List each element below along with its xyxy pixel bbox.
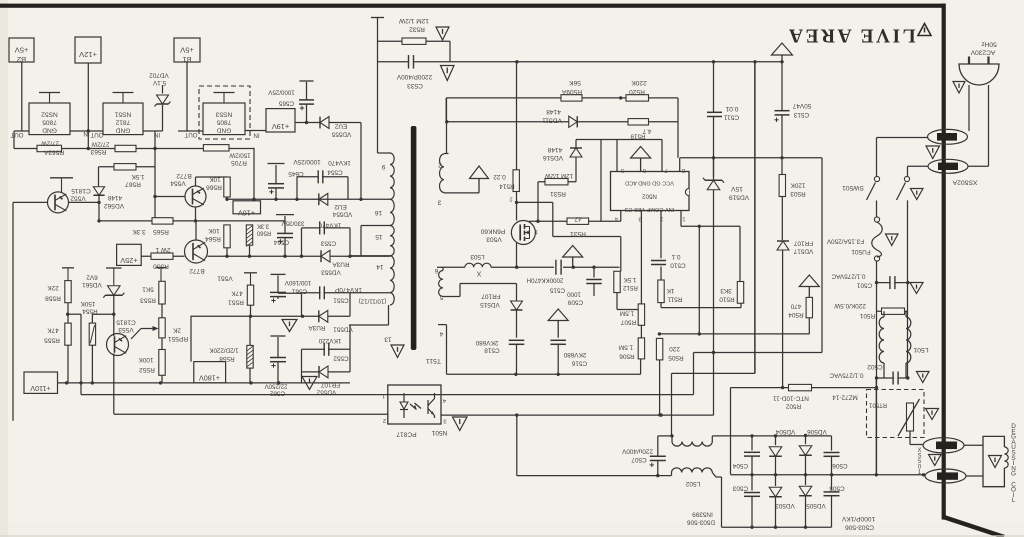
warning triangle between XS502A [926, 146, 940, 159]
svg-text:3: 3 [437, 199, 441, 206]
wire y352.5 to stair [694, 352, 823, 354]
svg-text:R519: R519 [630, 133, 645, 140]
svg-text:3K3: 3K3 [720, 287, 732, 294]
svg-text:1.5M: 1.5M [620, 310, 634, 317]
wire x730.5 AC feed [730, 388, 732, 475]
svg-text:R563A: R563A [43, 149, 64, 156]
wire V553 base arrow to RP551 [131, 329, 141, 340]
wire left leg x516.8 down [516, 415, 518, 476]
svg-text:1.5K: 1.5K [131, 173, 145, 180]
svg-text:RP551: RP551 [168, 335, 188, 342]
svg-text:L502: L502 [685, 480, 700, 487]
secondary winding left of core [390, 153, 394, 199]
resistor R531 12M 1/2W [538, 181, 576, 183]
svg-text:FR107: FR107 [481, 293, 501, 300]
resistor R531b 47 [567, 218, 589, 224]
svg-text:G: G [1011, 471, 1016, 478]
svg-text:R531: R531 [550, 190, 566, 197]
svg-text:0.1/275VAC: 0.1/275VAC [831, 273, 865, 280]
wire emitter rail y256.2 [208, 255, 391, 257]
output terminal +25V [117, 244, 142, 265]
svg-text:R514: R514 [499, 183, 515, 190]
svg-text:INV COMP VEE CS: INV COMP VEE CS [624, 206, 674, 212]
snubber loop C553/VD553 frame [301, 228, 303, 256]
svg-text:15V: 15V [731, 185, 743, 192]
svg-text:+16V: +16V [238, 209, 255, 218]
svg-text:50V47: 50V47 [792, 102, 811, 109]
svg-text:C554: C554 [327, 169, 343, 176]
svg-text:OUT: OUT [10, 131, 23, 138]
bridge mid rail y474.8 [731, 474, 924, 476]
svg-text:4148: 4148 [107, 194, 122, 201]
wire V553 collector-emitter column [113, 334, 115, 336]
diode VD517 FR107 [777, 241, 789, 250]
wire VD516 top rail y139.5 [576, 139, 662, 141]
svg-text:C565: C565 [278, 100, 294, 107]
wire base rail y220.9 [99, 220, 285, 222]
wire R514 junction to gate leg [517, 201, 553, 203]
diode VD551 RU3A [319, 310, 328, 322]
svg-text:V552: V552 [70, 195, 86, 202]
resistor R511 1K [660, 267, 662, 281]
capacitor C504 [751, 436, 753, 451]
svg-text:0.1/275VAC: 0.1/275VAC [829, 372, 863, 379]
svg-text:R564: R564 [205, 235, 221, 242]
resistor R566 10K [224, 177, 230, 197]
svg-text:R509A: R509A [561, 88, 582, 95]
svg-text:B772: B772 [189, 267, 205, 274]
svg-text:1K: 1K [666, 287, 675, 294]
svg-text:2KV680: 2KV680 [475, 339, 498, 346]
svg-text:1000/25V: 1000/25V [293, 158, 321, 165]
live-ground arrow at C513 [772, 43, 793, 55]
svg-text:V551: V551 [217, 275, 233, 282]
svg-text:NS51: NS51 [114, 111, 131, 118]
svg-text:R552: R552 [139, 366, 155, 373]
svg-text:VD519: VD519 [729, 194, 749, 201]
wire XS501-2 right to degaussing coil [966, 475, 983, 477]
resistor R552 100K [161, 338, 163, 350]
svg-text:1.5K: 1.5K [623, 276, 637, 283]
wire switch2 down / filter right column [907, 200, 909, 378]
terminal bar above NS51 [113, 92, 134, 94]
svg-text:47K: 47K [231, 290, 243, 297]
capacitor C533 2200P/400V [408, 55, 410, 69]
warning triangle near fuse [886, 234, 899, 246]
capacitor C508 series [555, 260, 557, 275]
svg-text:R565: R565 [153, 228, 169, 235]
warning triangle near C502 [917, 372, 930, 383]
wire x361 pin15-pin14 [360, 226, 362, 256]
svg-text:R554: R554 [82, 308, 98, 315]
resistor R520 220K [626, 95, 649, 101]
svg-text:14: 14 [376, 263, 384, 270]
svg-text:1KV470P: 1KV470P [335, 286, 362, 293]
winding bottom lead pin13 [388, 305, 390, 325]
diode VD553 RU3A [321, 250, 330, 262]
capacitor C518 2KV680 [509, 339, 525, 341]
svg-text:4148: 4148 [547, 146, 562, 153]
thermistor RT501 MZ72-14 dashed box [867, 390, 925, 438]
border frame bottom-right diagonal [944, 517, 1004, 537]
svg-text:V554: V554 [170, 180, 186, 187]
svg-text:C561: C561 [291, 288, 307, 295]
wire x721.5 to bottom rail [721, 477, 723, 527]
svg-text:220K: 220K [631, 79, 647, 86]
wire +180V riser [190, 316, 192, 362]
svg-text:3.3K: 3.3K [132, 228, 146, 235]
svg-text:C501: C501 [856, 282, 872, 289]
svg-text:2000KK470H: 2000KK470H [527, 277, 564, 284]
resistor R558 22K [62, 267, 74, 269]
output terminal +12V [75, 37, 101, 63]
transistor V552 C1815 [48, 192, 69, 213]
capacitor C553 1KV470 [319, 221, 321, 234]
capacitor C554 1KV470 [317, 170, 319, 183]
resistor R550 2W 1 [141, 255, 184, 257]
terminal bar above NS52 [39, 92, 60, 94]
wire pin4 leg x446.5 [446, 325, 448, 375]
wire riser x361 (pin16 to +19V) [360, 123, 362, 200]
svg-text:4: 4 [439, 330, 443, 337]
capacitor C502 0.1/275VAC [877, 377, 909, 379]
junction +12V rail [87, 147, 90, 150]
svg-text:LIVE AREA: LIVE AREA [786, 25, 915, 46]
live-ground arrow at pin3 [470, 166, 489, 179]
+19V terminal box [266, 109, 295, 132]
wire filter to bridge mid [875, 378, 877, 475]
connector XS501 contact 1 [923, 438, 964, 453]
svg-text:NS53: NS53 [215, 111, 232, 118]
warning triangle near opto [453, 417, 468, 431]
svg-text:1/2D/220K: 1/2D/220K [209, 347, 239, 354]
svg-text:RU3A: RU3A [332, 261, 350, 268]
wire V554 base from x155 [155, 196, 185, 198]
svg-text:R531: R531 [570, 230, 586, 237]
svg-text:SW501: SW501 [842, 184, 864, 191]
svg-text:C502: C502 [867, 363, 883, 370]
svg-text:R512: R512 [623, 284, 638, 291]
svg-text:150/2W: 150/2W [229, 152, 250, 159]
svg-text:5: 5 [439, 294, 443, 301]
svg-text:5.1V: 5.1V [152, 79, 166, 86]
svg-text:R705: R705 [231, 159, 247, 166]
resistor R558b 1/2D/220K hatched [247, 345, 253, 368]
svg-text:VD702: VD702 [149, 72, 169, 79]
wire jog x552.8 to y236.5 [552, 202, 554, 236]
svg-text:R555: R555 [44, 337, 60, 344]
resistor R563A 27/2W [37, 145, 62, 151]
svg-text:V503: V503 [486, 236, 502, 243]
wire V553 down corner to opto [114, 413, 388, 415]
svg-text:C564: C564 [273, 239, 289, 246]
live-ground arrow at drain snubber [563, 246, 583, 258]
bridge top rail y435.9 [712, 435, 831, 437]
svg-text:47K: 47K [47, 327, 59, 334]
svg-text:1.5M: 1.5M [619, 344, 633, 351]
wire y307.6 R511-R510 [661, 307, 741, 309]
connector XS502A contact 2 [928, 159, 968, 173]
snubber loop C551/VD551 frame [301, 293, 303, 316]
wire plug line1 [968, 85, 970, 131]
wire y475.6 to L502 [517, 475, 672, 477]
svg-text:C504: C504 [732, 462, 748, 469]
capacitor C506 [831, 436, 833, 451]
svg-text:VD506: VD506 [807, 428, 827, 435]
svg-text:VD561: VD561 [82, 281, 102, 288]
wire NS53.IN to +19V [245, 130, 266, 132]
wire +19V rail y122.5 [295, 122, 361, 124]
svg-text:2200P/400V: 2200P/400V [396, 73, 432, 80]
wire pin4 lead rail y374.3 [447, 373, 641, 375]
bridge bottom rail y527.2 [722, 526, 832, 528]
svg-text:VCC GD GND ACD: VCC GD GND ACD [625, 180, 674, 186]
warning triangle in degauss box [989, 456, 1002, 468]
svg-text:C503: C503 [732, 485, 748, 492]
svg-text:L501: L501 [913, 346, 928, 353]
wire NS51.IN stub [143, 130, 163, 132]
svg-text:1KV220: 1KV220 [318, 337, 341, 344]
svg-text:L503: L503 [470, 253, 485, 260]
svg-text:NTC-10D-11: NTC-10D-11 [773, 395, 809, 402]
capacitor C551 1KV470P [319, 286, 321, 299]
svg-text:1KV470: 1KV470 [318, 222, 341, 229]
resistor R563 27/2W [115, 145, 136, 151]
capacitor C507 220u/400V [658, 435, 672, 437]
svg-text:OUT: OUT [90, 131, 103, 138]
diode VD504 [775, 436, 777, 445]
svg-text:6: 6 [434, 267, 438, 274]
resistor R514 0.22 [513, 170, 519, 192]
wire NS53.OUT stub [178, 130, 203, 132]
svg-text:R501: R501 [859, 312, 875, 319]
wire pin5 jog to VD515 [459, 284, 461, 297]
wire R532 right leg [449, 41, 451, 62]
IC pin 1 [680, 211, 682, 227]
svg-text:1: 1 [682, 216, 685, 222]
wire R558-R555 junction [67, 303, 69, 323]
winding lead pin9 [378, 152, 391, 154]
svg-text:R558: R558 [45, 295, 61, 302]
svg-text:1: 1 [382, 393, 385, 399]
resistor R504 470 [806, 297, 812, 317]
svg-text:150K: 150K [80, 300, 96, 307]
wire x620.8 down to R512 [620, 237, 622, 272]
svg-text:C552: C552 [333, 355, 349, 362]
svg-text:50Hz: 50Hz [981, 41, 996, 48]
svg-text:12M 1/2W: 12M 1/2W [398, 17, 429, 24]
output terminal +16V [233, 201, 261, 214]
svg-text:IN: IN [253, 132, 259, 139]
svg-text:VD562: VD562 [104, 202, 124, 209]
svg-text:EU2: EU2 [334, 123, 347, 130]
svg-text:VD517: VD517 [793, 248, 813, 255]
svg-text:27/2W: 27/2W [91, 141, 109, 148]
output terminal B2 +5V [9, 38, 34, 62]
warning triangle under T511 [391, 345, 404, 358]
terminal bar above NS53 [214, 92, 235, 94]
svg-text:C533: C533 [407, 82, 423, 89]
svg-text:470: 470 [790, 303, 801, 310]
svg-text:C516: C516 [571, 360, 587, 367]
regulator N553 7805 [203, 103, 245, 135]
connector XS502A contact 1 [928, 129, 968, 144]
column x516.5 from HV rail [516, 62, 518, 221]
svg-text:7: 7 [664, 167, 667, 173]
wire fuse down / filter left column [876, 261, 878, 475]
wire ladder rail y148.5 [14, 148, 254, 150]
svg-text:22K: 22K [47, 284, 59, 291]
wire MOSFET drain down [516, 243, 518, 267]
wire NS52.IN-NS51.OUT [70, 130, 103, 132]
op-amp/controller IC N502 [611, 172, 690, 211]
wire rail y333.9 [659, 333, 809, 335]
left rail x13 [12, 202, 14, 420]
svg-text:B772: B772 [176, 172, 192, 179]
wire NS52 OUT stub [14, 130, 29, 132]
wire pin8 feed rail y157.8 [680, 157, 822, 159]
wire loop3 to winding [350, 292, 390, 294]
diode VD562 4148 [98, 167, 100, 186]
svg-text:3.3K: 3.3K [257, 223, 269, 229]
svg-text:0.22: 0.22 [493, 173, 506, 180]
svg-text:120K: 120K [790, 182, 806, 189]
wire R560 bottom stub [249, 245, 251, 256]
svg-text:27/2W: 27/2W [41, 140, 59, 147]
wire x755 long column [754, 62, 756, 374]
capacitor C501 0.1/275VAC [877, 282, 909, 284]
svg-text:4148: 4148 [546, 108, 561, 115]
svg-text:IN5399: IN5399 [692, 511, 713, 518]
diode VD515 FR107 branch [516, 284, 518, 302]
wire V554 emitter down [195, 207, 197, 221]
svg-text:+110V: +110V [30, 384, 51, 393]
svg-text:L: L [1012, 497, 1016, 504]
border frame right line [942, 4, 946, 520]
wire ladder row y121.8 (VD511 R519) [447, 121, 678, 123]
svg-text:R563: R563 [90, 148, 106, 155]
svg-text:R558: R558 [219, 355, 235, 362]
resistor R565 3.3K [152, 218, 173, 224]
wire B2 to NS52 OUT [21, 62, 23, 131]
warning triangle near C501 [910, 283, 923, 294]
svg-text:220K/0.5W: 220K/0.5W [833, 302, 866, 309]
transistor V551 B772 [185, 240, 208, 263]
wire y415 opto to x713.5 [441, 414, 714, 416]
svg-text:C503-506: C503-506 [845, 524, 874, 531]
svg-text:2: 2 [660, 216, 663, 222]
resistor R510 3K3 [739, 226, 741, 281]
stair wire x754.8 to L502 [754, 62, 756, 374]
svg-text:NS52: NS52 [41, 111, 58, 118]
diode VD511 4148 [569, 116, 578, 127]
svg-text:0.1: 0.1 [671, 253, 680, 260]
wire pin1 row y226.3 [681, 225, 740, 227]
switch SW501 pole1 [874, 176, 879, 181]
wire x822 corner column [821, 158, 823, 353]
svg-text:PC817: PC817 [396, 431, 416, 438]
capacitor C513 50V47 [775, 110, 790, 112]
output terminal B1 +5V [174, 38, 200, 62]
wire +180V rail y316.3 [191, 315, 350, 317]
wire V552 emitter to left rail [13, 201, 48, 203]
transistor V554 B772 [185, 186, 206, 207]
wire pin4 riser [620, 211, 622, 222]
svg-text:VD511: VD511 [542, 117, 562, 124]
svg-text:R511: R511 [667, 296, 682, 303]
warning triangle near C533 [441, 66, 455, 81]
wire XS502A-1 to switch [877, 137, 928, 139]
svg-text:R553: R553 [140, 297, 156, 304]
svg-text:2K: 2K [172, 327, 181, 334]
capacitor C510 0.1 [651, 260, 666, 262]
resistor R560 3.3K hatched [246, 225, 252, 245]
fuse FU501 F3.15A/250V [874, 217, 879, 222]
svg-text:R560: R560 [256, 230, 271, 236]
svg-text:C505: C505 [829, 485, 845, 492]
svg-text:220u/400V: 220u/400V [621, 448, 653, 455]
wire V551 collector [195, 221, 197, 240]
output terminal +180V [194, 362, 226, 383]
snubber loop C554/VD554 frame [296, 177, 298, 200]
svg-text:R507: R507 [620, 319, 636, 326]
wire switch1 to fuse [876, 201, 878, 217]
svg-text:R505: R505 [668, 354, 684, 361]
regulator N552 7805 [29, 103, 70, 135]
svg-text:R510: R510 [719, 296, 735, 303]
svg-text:2: 2 [438, 162, 442, 169]
svg-text:C507: C507 [631, 456, 647, 463]
wire XS502A-2 to switch2 [908, 165, 929, 167]
IC pin 6 with live-ground arrow [631, 147, 651, 159]
winding pin3 lead [444, 192, 479, 194]
MOSFET V503 P6NK60 [511, 221, 535, 245]
opto transistor symbol [427, 400, 429, 414]
svg-text:OUT: OUT [184, 131, 197, 138]
svg-text:GND: GND [42, 127, 57, 134]
warning triangle near C561 [282, 320, 297, 332]
warning triangle between XS501 [929, 455, 942, 466]
svg-text:12M 1/2W: 12M 1/2W [545, 172, 573, 179]
wire x538 gate leg [537, 182, 539, 222]
capacitor C561 100/160V [271, 273, 286, 275]
svg-text:R520: R520 [629, 88, 645, 95]
opto LED symbol [400, 402, 408, 409]
diode VD552 FR107 [319, 366, 328, 378]
svg-text:VD554: VD554 [332, 211, 352, 218]
svg-text:0.01: 0.01 [725, 105, 738, 112]
wire plug line2 [988, 85, 990, 166]
svg-text:VD555: VD555 [331, 131, 351, 138]
svg-text:1000/25V: 1000/25V [267, 89, 294, 96]
svg-text:+12V: +12V [78, 50, 97, 59]
wire ladder row y97.9 (R509A R520) [446, 97, 678, 99]
resistor R567 1.5K [99, 166, 156, 168]
svg-text:220: 220 [669, 345, 680, 352]
svg-text:RT501: RT501 [868, 402, 887, 408]
diode VD503 [775, 475, 777, 486]
border frame top line [0, 4, 945, 8]
svg-text:C551: C551 [333, 297, 349, 304]
svg-text:1KV470: 1KV470 [328, 159, 351, 166]
svg-text:C553: C553 [320, 240, 336, 247]
warning triangle below C562 loop [302, 377, 317, 390]
svg-text:7812: 7812 [115, 119, 130, 126]
svg-text:47: 47 [574, 215, 582, 222]
resistor R564 10K [224, 225, 230, 248]
IC pin 3 [640, 211, 642, 304]
svg-text:10K: 10K [208, 227, 220, 234]
